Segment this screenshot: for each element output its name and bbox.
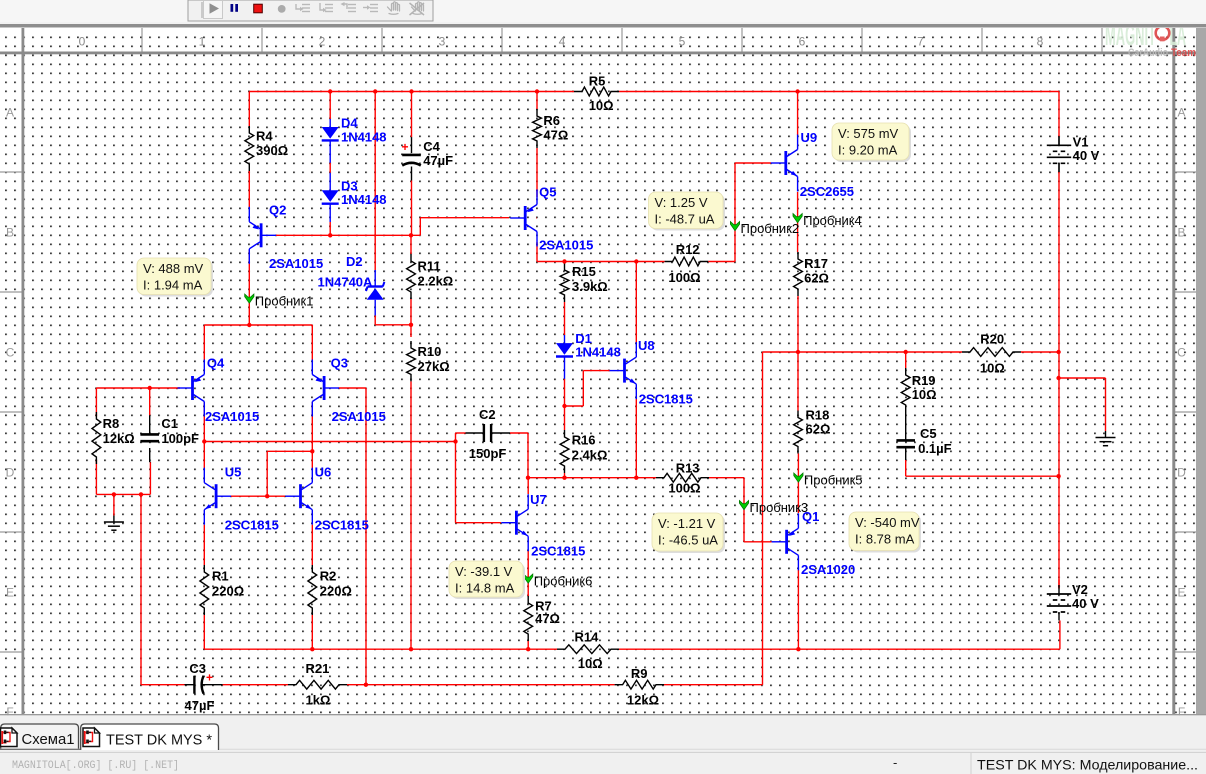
- svg-text:U8: U8: [638, 338, 655, 353]
- svg-text:U5: U5: [225, 465, 242, 480]
- svg-text:R20: R20: [980, 332, 1004, 347]
- svg-text:V: -540 mV: V: -540 mV: [855, 515, 920, 530]
- svg-text:1: 1: [199, 35, 206, 49]
- svg-text:R1: R1: [212, 569, 229, 584]
- svg-text:R17: R17: [804, 256, 828, 271]
- svg-text:2SC1815: 2SC1815: [315, 518, 369, 533]
- svg-text:R10: R10: [418, 344, 442, 359]
- svg-text:Пробник5: Пробник5: [804, 473, 863, 488]
- svg-text:R6: R6: [543, 113, 560, 128]
- svg-text:Пробник2: Пробник2: [741, 221, 800, 236]
- svg-text:V: -39.1 V: V: -39.1 V: [455, 564, 513, 579]
- svg-text:R21: R21: [306, 661, 330, 676]
- svg-text:6: 6: [799, 35, 806, 49]
- svg-text:Пробник6: Пробник6: [534, 574, 593, 589]
- svg-text:-: -: [893, 755, 897, 770]
- svg-text:47Ω: 47Ω: [543, 128, 568, 143]
- svg-text:I: 14.8 mA: I: 14.8 mA: [455, 581, 515, 596]
- svg-text:U6: U6: [315, 465, 332, 480]
- svg-text:1N4740A: 1N4740A: [318, 275, 374, 290]
- svg-text:C3: C3: [189, 661, 206, 676]
- svg-text:47µF: 47µF: [423, 153, 453, 168]
- svg-text:R15: R15: [572, 264, 596, 279]
- svg-text:62Ω: 62Ω: [804, 271, 829, 286]
- svg-text:C4: C4: [423, 139, 440, 154]
- svg-text:12kΩ: 12kΩ: [103, 431, 135, 446]
- svg-text:150pF: 150pF: [469, 446, 507, 461]
- svg-text:10Ω: 10Ω: [912, 387, 937, 402]
- svg-text:2SC1815: 2SC1815: [639, 392, 693, 407]
- svg-text:B: B: [1177, 226, 1185, 240]
- svg-text:2SC2655: 2SC2655: [800, 184, 854, 199]
- svg-text:220Ω: 220Ω: [212, 584, 244, 599]
- svg-text:R8: R8: [103, 416, 120, 431]
- svg-text:B: B: [6, 226, 14, 240]
- svg-text:2.4kΩ: 2.4kΩ: [572, 448, 608, 463]
- svg-text:A: A: [1177, 106, 1185, 120]
- svg-text:I: 9.20 mA: I: 9.20 mA: [838, 143, 898, 158]
- svg-text:220Ω: 220Ω: [320, 584, 352, 599]
- svg-text:+: +: [401, 140, 408, 154]
- svg-text:R14: R14: [575, 630, 600, 645]
- svg-text:U7: U7: [530, 492, 547, 507]
- svg-text:10Ω: 10Ω: [578, 656, 603, 671]
- svg-text:2SC1815: 2SC1815: [531, 544, 585, 559]
- svg-text:Team: Team: [1171, 47, 1196, 59]
- svg-text:2SC1815: 2SC1815: [225, 518, 279, 533]
- svg-text:I: 8.78 mA: I: 8.78 mA: [855, 532, 915, 547]
- svg-text:1kΩ: 1kΩ: [306, 693, 331, 708]
- svg-text:Q5: Q5: [539, 185, 556, 200]
- svg-text:3: 3: [439, 35, 446, 49]
- svg-text:2.2kΩ: 2.2kΩ: [418, 274, 454, 289]
- svg-text:R2: R2: [320, 569, 337, 584]
- svg-text:V: 1.25 V: V: 1.25 V: [655, 195, 708, 210]
- svg-text:R9: R9: [631, 666, 648, 681]
- svg-text:R11: R11: [418, 259, 441, 274]
- svg-text:Q2: Q2: [269, 203, 286, 218]
- svg-text:12kΩ: 12kΩ: [627, 693, 659, 708]
- svg-text:1N4148: 1N4148: [575, 345, 621, 360]
- svg-text:C5: C5: [920, 426, 937, 441]
- svg-text:R19: R19: [912, 373, 936, 388]
- svg-text:A: A: [6, 106, 14, 120]
- svg-text:2SA1015: 2SA1015: [205, 409, 259, 424]
- svg-text:R18: R18: [806, 408, 830, 423]
- svg-text:0: 0: [79, 35, 86, 49]
- svg-text:2SA1015: 2SA1015: [539, 238, 593, 253]
- svg-text:R12: R12: [676, 242, 700, 257]
- svg-text:47µF: 47µF: [185, 698, 215, 713]
- svg-text:8: 8: [1037, 35, 1044, 49]
- svg-text:40 V: 40 V: [1072, 596, 1099, 611]
- svg-text:Q1: Q1: [802, 509, 819, 524]
- svg-text:TEST DK MYS *: TEST DK MYS *: [106, 732, 212, 749]
- svg-text:C1: C1: [161, 416, 178, 431]
- svg-text:Q4: Q4: [207, 356, 225, 371]
- svg-text:V: 575 mV: V: 575 mV: [838, 126, 899, 141]
- svg-text:D: D: [1177, 466, 1186, 480]
- svg-text:R16: R16: [572, 433, 596, 448]
- svg-text:2: 2: [319, 35, 326, 49]
- svg-text:C: C: [6, 346, 15, 360]
- svg-text:3.9kΩ: 3.9kΩ: [572, 279, 608, 294]
- svg-text:390Ω: 390Ω: [256, 143, 288, 158]
- svg-text:U9: U9: [801, 130, 818, 145]
- svg-text:+: +: [206, 671, 213, 685]
- svg-text:100Ω: 100Ω: [668, 481, 700, 496]
- svg-text:4: 4: [559, 35, 566, 49]
- svg-text:Пробник1: Пробник1: [255, 294, 314, 309]
- svg-text:TEST DK MYS: Моделирование...: TEST DK MYS: Моделирование...: [977, 757, 1198, 773]
- svg-text:Пробник4: Пробник4: [803, 213, 862, 228]
- svg-text:V2: V2: [1072, 582, 1088, 597]
- svg-text:10Ω: 10Ω: [980, 361, 1005, 376]
- svg-text:27kΩ: 27kΩ: [418, 359, 450, 374]
- svg-text:D2: D2: [346, 254, 363, 269]
- svg-text:R5: R5: [589, 74, 606, 89]
- svg-text:100pF: 100pF: [161, 431, 199, 446]
- svg-text:Пробник3: Пробник3: [750, 500, 809, 515]
- svg-text:E: E: [1177, 586, 1185, 600]
- svg-text:5: 5: [679, 35, 686, 49]
- svg-text:40 V: 40 V: [1073, 148, 1100, 163]
- svg-text:2SA1020: 2SA1020: [801, 562, 855, 577]
- svg-text:0.1µF: 0.1µF: [918, 441, 952, 456]
- svg-text:I: 1.94 mA: I: 1.94 mA: [143, 278, 203, 293]
- svg-text:D: D: [6, 466, 15, 480]
- svg-text:I: -46.5 uA: I: -46.5 uA: [658, 533, 718, 548]
- svg-text:D4: D4: [341, 116, 358, 131]
- svg-text:100Ω: 100Ω: [668, 270, 700, 285]
- svg-text:C: C: [1177, 346, 1186, 360]
- svg-text:R13: R13: [676, 461, 700, 476]
- svg-text:62Ω: 62Ω: [806, 422, 831, 437]
- svg-text:2SA1015: 2SA1015: [332, 409, 386, 424]
- svg-text:10Ω: 10Ω: [589, 98, 614, 113]
- svg-text:MAGNITOLA[.ORG] [.RU] [.NET]: MAGNITOLA[.ORG] [.RU] [.NET]: [12, 760, 179, 772]
- svg-text:R4: R4: [256, 129, 273, 144]
- svg-text:E: E: [6, 586, 14, 600]
- svg-text:47Ω: 47Ω: [535, 611, 560, 626]
- svg-text:V: 488 mV: V: 488 mV: [143, 261, 204, 276]
- svg-text:C2: C2: [479, 407, 496, 422]
- svg-text:I: -48.7 uA: I: -48.7 uA: [655, 212, 715, 227]
- svg-text:7: 7: [917, 35, 924, 49]
- svg-text:1N4148: 1N4148: [341, 192, 387, 207]
- svg-text:V: -1.21 V: V: -1.21 V: [658, 516, 716, 531]
- svg-text:Q3: Q3: [331, 356, 348, 371]
- svg-text:2SA1015: 2SA1015: [269, 256, 323, 271]
- svg-text:CarAudio: CarAudio: [1128, 47, 1168, 59]
- svg-text:1N4148: 1N4148: [341, 130, 387, 145]
- svg-text:Схема1: Схема1: [22, 731, 75, 748]
